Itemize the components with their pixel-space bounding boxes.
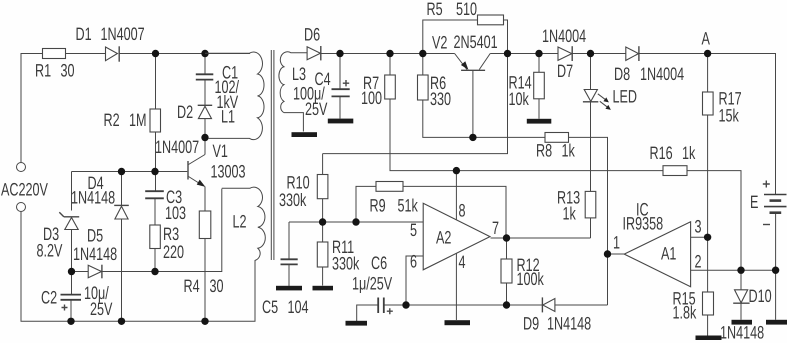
resistor R12 (501, 259, 512, 283)
svg-text:D7: D7 (557, 61, 573, 81)
svg-text:6: 6 (410, 252, 417, 272)
wire LED/R13 column (590, 54, 592, 239)
wire A1 pin1 row (608, 253, 625, 255)
svg-text:R2: R2 (104, 110, 120, 130)
svg-text:220: 220 (163, 242, 184, 262)
wire A1 pin3 row to A column (691, 236, 708, 238)
wire D10 column (740, 270, 742, 320)
resistor R11 (317, 242, 328, 267)
node dot bottom-R4 (201, 318, 208, 325)
svg-text:IR9358: IR9358 (623, 214, 664, 234)
wire A2 output row y=238 (491, 237, 591, 239)
svg-text:100: 100 (361, 88, 382, 108)
svg-text:100k: 100k (517, 269, 545, 289)
diode D1 (106, 47, 118, 61)
label battery minus (763, 224, 770, 226)
diode D4 (115, 206, 128, 219)
node dot D6-C4 (336, 50, 343, 57)
diode D7 (558, 47, 572, 60)
svg-text:D6: D6 (304, 25, 320, 45)
transistor V2 2N5401 (461, 69, 485, 71)
wire A2 pin8 vertical (455, 171, 457, 220)
wire R9 branch and feedback (356, 186, 506, 238)
wire top rail left: AC terminal up to R1/D1 row (21, 54, 250, 163)
svg-text:A1: A1 (661, 244, 676, 264)
svg-text:LED: LED (613, 87, 638, 107)
label battery plus (763, 181, 770, 188)
inductor L3 (279, 52, 307, 132)
AC terminal top (17, 163, 26, 172)
svg-text:R16: R16 (650, 143, 673, 163)
svg-text:30: 30 (61, 61, 75, 81)
svg-text:1k: 1k (563, 204, 577, 224)
resistor R15 (703, 292, 714, 315)
resistor R5 (478, 15, 504, 25)
node dot rail-R6-R5 (419, 50, 426, 57)
ground R14 (527, 119, 552, 124)
svg-text:1N4148: 1N4148 (73, 244, 117, 264)
node dot R12-D9 (503, 301, 510, 308)
svg-text:R5: R5 (427, 0, 443, 19)
svg-text:E: E (750, 192, 758, 212)
wire D5 row y=271.5 (72, 189, 222, 272)
node dot pin2-battery (772, 267, 779, 274)
diode D6 (307, 47, 320, 60)
wire A1 pin2 row (691, 269, 776, 271)
resistor R17 (703, 92, 714, 115)
diode D2 (198, 106, 211, 118)
op-amp A1 (624, 222, 690, 287)
resistor R2 (150, 109, 161, 132)
svg-text:A2: A2 (436, 228, 451, 248)
svg-text:510: 510 (456, 0, 477, 19)
resistor R10 (317, 175, 328, 199)
ground C6 (346, 321, 368, 326)
capacitor C2 electrolytic (61, 295, 82, 300)
wire V2 base column (472, 71, 474, 138)
wire R10/R11 node row y=222 (289, 221, 423, 223)
resistor R1 (43, 49, 66, 59)
ground L3 (292, 132, 318, 137)
svg-text:R3: R3 (163, 224, 179, 244)
svg-text:330k: 330k (279, 190, 307, 210)
wire secondary rail y=53.5 (321, 54, 776, 195)
node dot A (704, 50, 711, 57)
diode D9 (543, 299, 555, 312)
wire R6 column then base row (423, 54, 545, 138)
svg-text:C6: C6 (371, 253, 387, 273)
svg-text:1: 1 (613, 233, 620, 253)
svg-text:2N5401: 2N5401 (454, 32, 498, 52)
wire R11 column to ground (322, 267, 324, 286)
svg-text:8.2V: 8.2V (37, 241, 63, 261)
node dot rail-R2 (152, 50, 159, 57)
inductor L2 (222, 187, 265, 321)
svg-text:D1: D1 (76, 24, 92, 44)
node dot A1 pin1 (604, 250, 611, 257)
svg-text:8: 8 (459, 201, 466, 221)
capacitor C4 electrolytic (332, 89, 350, 96)
wire bottom mid row y=305 C6 to D9 to A1 pin1 (357, 305, 608, 321)
wire A node column x=707.6 R17/R15 (707, 54, 709, 336)
wire R5 left leg (423, 20, 478, 54)
wire R2 column: top rail to base wire to C3 (155, 54, 157, 192)
svg-text:1k: 1k (562, 141, 576, 161)
node dot A1 pin3-R17 (704, 234, 711, 241)
diode D10 (735, 290, 748, 303)
svg-text:1N4148: 1N4148 (720, 323, 764, 343)
svg-text:D8: D8 (614, 64, 630, 84)
svg-text:30: 30 (210, 276, 224, 296)
svg-text:L3: L3 (292, 64, 306, 84)
LED (584, 90, 597, 102)
wire C3/R3 column (154, 198, 156, 271)
resistor R8 (545, 133, 569, 143)
node dot R10-R11-node (319, 218, 326, 225)
svg-text:10k: 10k (509, 89, 530, 109)
wire R10 column (322, 199, 324, 242)
node dot D3-C2-D5 (68, 268, 75, 275)
inductor L1 (205, 52, 264, 140)
ground C5 (276, 286, 302, 291)
node dot R9 branch (352, 218, 359, 225)
resistor R3 (150, 225, 161, 249)
wire R5 right leg down to R10 row (323, 20, 508, 175)
ground D10 (732, 320, 753, 325)
svg-text:5: 5 (410, 220, 417, 240)
ground R11 (313, 286, 334, 291)
svg-text:330k: 330k (332, 254, 360, 274)
AC terminal bottom (17, 203, 26, 212)
node dot base-C3 (151, 168, 158, 175)
resistor R7 (385, 75, 396, 99)
svg-text:103: 103 (165, 203, 186, 223)
svg-text:R9: R9 (370, 196, 386, 216)
resistor R9 (376, 182, 403, 192)
svg-text:R4: R4 (184, 276, 200, 296)
wire C4 column (339, 54, 341, 119)
svg-text:D2: D2 (177, 102, 193, 122)
node dot pin2-R16-D10 (737, 267, 744, 274)
wire R8 row to A1 pin1 column (569, 137, 608, 305)
diode D8 (626, 47, 639, 60)
ground R15 (696, 336, 722, 341)
capacitor C6 electrolytic (378, 298, 384, 314)
wire R14 column (538, 54, 540, 119)
svg-text:A: A (702, 29, 710, 49)
svg-text:1μ/25V: 1μ/25V (352, 274, 392, 294)
svg-text:D5: D5 (87, 225, 103, 245)
wire R12 column (506, 238, 508, 305)
svg-text:1N4007: 1N4007 (155, 137, 199, 157)
ground A2 pin4 (445, 320, 471, 325)
resistor R13 (585, 191, 596, 218)
wire A2 pin4 to ground (455, 254, 457, 321)
node dot bottom-C2 (67, 318, 74, 325)
svg-text:1.8k: 1.8k (673, 303, 698, 323)
wire C1/D2/L1 column (204, 54, 206, 138)
capacitor C1 (196, 74, 214, 79)
node dot V2base-R6-R8 (469, 134, 476, 141)
svg-text:L2: L2 (233, 212, 247, 232)
svg-text:1N4004: 1N4004 (640, 64, 684, 84)
svg-text:3: 3 (695, 217, 702, 237)
wire battery column (775, 213, 777, 320)
wire V1 collector/emitter column x=205 (204, 138, 206, 322)
svg-text:V1: V1 (213, 141, 228, 161)
svg-text:15k: 15k (719, 106, 740, 126)
node dot rail-LED (587, 50, 594, 57)
node dot pin8 (453, 167, 460, 174)
svg-text:C5: C5 (262, 297, 278, 317)
svg-text:C2: C2 (41, 288, 57, 308)
node dot rail-R5right (504, 50, 511, 57)
svg-text:V2: V2 (432, 33, 447, 53)
svg-text:25V: 25V (305, 99, 327, 119)
svg-text:L1: L1 (221, 107, 235, 127)
node dot collector (201, 134, 208, 141)
svg-text:1k: 1k (682, 143, 696, 163)
wire R7 column then to A2 pin8 row (390, 54, 456, 171)
node dot rail-R7 (386, 50, 393, 57)
diode D5 (88, 265, 101, 278)
zener D3 8.2V (65, 218, 78, 230)
svg-text:1N4004: 1N4004 (542, 26, 586, 46)
node dot A2out-R12 (503, 234, 510, 241)
transformer core (271, 50, 274, 260)
wire A2 pin8 row to R16 and down to A1 pin2 node (456, 171, 741, 271)
svg-text:4: 4 (459, 252, 466, 272)
wire AC bottom terminal down to bottom rail (21, 212, 256, 322)
op-amp A2 (423, 203, 490, 269)
ground C4 (328, 119, 354, 124)
svg-text:7: 7 (492, 218, 499, 238)
svg-text:1N4148: 1N4148 (71, 188, 115, 208)
svg-text:104: 104 (288, 297, 309, 317)
battery E (764, 194, 787, 196)
wire V1 base row y=171.5 (72, 172, 188, 211)
svg-text:51k: 51k (398, 196, 419, 216)
capacitor C5 (288, 222, 290, 259)
wire D4 column (121, 172, 123, 322)
svg-text:1M: 1M (129, 110, 147, 130)
node dot rail-C1 (201, 50, 208, 57)
resistor R4 (199, 211, 211, 239)
transistor V1 13003 (187, 161, 189, 180)
svg-text:1N4007: 1N4007 (101, 24, 145, 44)
svg-text:R8: R8 (536, 141, 552, 161)
node dot D5row-R3 (151, 268, 158, 275)
svg-text:13003: 13003 (211, 162, 246, 182)
node dot bottom-D4 (118, 318, 125, 325)
svg-text:330: 330 (430, 89, 451, 109)
resistor R6 (418, 75, 429, 100)
node dot base-D4 (118, 168, 125, 175)
resistor R16 (663, 166, 687, 176)
svg-text:R1: R1 (35, 61, 51, 81)
svg-text:2: 2 (695, 252, 702, 272)
ground battery (766, 320, 787, 325)
resistor R14 (534, 72, 545, 99)
svg-text:AC220V: AC220V (1, 180, 48, 200)
capacitor C3 (145, 191, 164, 198)
wire D3/C2 column (70, 228, 73, 321)
node dot rail-R14 (535, 50, 542, 57)
svg-text:1N4148: 1N4148 (547, 314, 591, 334)
svg-text:25V: 25V (90, 299, 112, 319)
svg-text:D10: D10 (749, 286, 772, 306)
svg-text:D9: D9 (523, 314, 539, 334)
wire A2 pin6 to C6 (406, 256, 423, 305)
node dot C6-pin6 (402, 301, 409, 308)
